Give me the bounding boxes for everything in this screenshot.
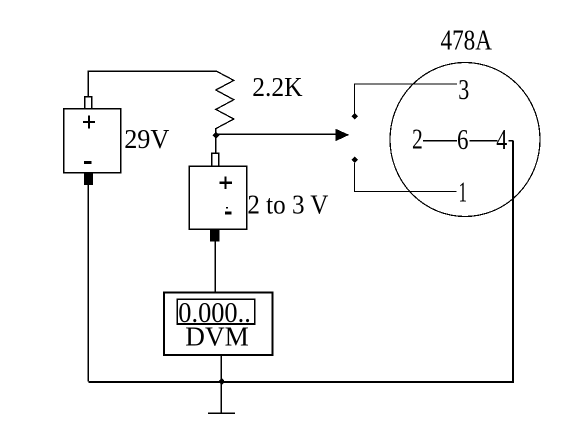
- svg-text:6: 6: [457, 125, 469, 156]
- svg-text:3: 3: [458, 74, 469, 106]
- svg-text:4: 4: [496, 125, 507, 156]
- svg-text:29V: 29V: [124, 124, 170, 154]
- svg-text:1: 1: [459, 177, 468, 208]
- svg-text:2.2K: 2.2K: [252, 72, 303, 102]
- svg-text:2: 2: [412, 125, 423, 156]
- svg-text:2 to 3 V: 2 to 3 V: [247, 190, 328, 220]
- svg-text:DVM: DVM: [185, 321, 249, 351]
- svg-text:478A: 478A: [441, 26, 493, 57]
